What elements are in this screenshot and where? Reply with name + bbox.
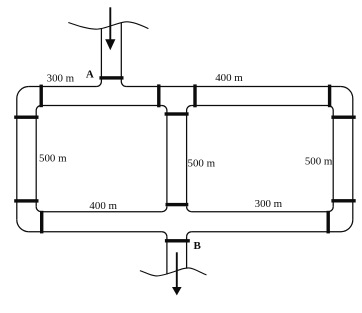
svg-text:400 m: 400 m bbox=[89, 200, 117, 212]
middle-top tee flange bar bbox=[165, 112, 189, 115]
middle pipe left wall bbox=[166, 111, 168, 207]
middle-top tee left fillet bbox=[162, 106, 167, 111]
outer top-right elbow bbox=[341, 87, 353, 99]
flange bar, bottom pipe near right elbow bbox=[327, 211, 330, 234]
svg-text:300 m: 300 m bbox=[47, 73, 75, 85]
left pipe inner wall bbox=[35, 111, 37, 207]
inflow arrow (top) bbox=[105, 7, 115, 50]
inner bottom-right elbow bbox=[328, 207, 333, 212]
left pipe outer wall bbox=[16, 99, 18, 220]
inner top-left elbow bbox=[36, 106, 41, 111]
node B flange bar bbox=[165, 239, 190, 242]
flange bar, top pipe near left elbow bbox=[40, 85, 43, 108]
inlet pipe right wall bbox=[121, 23, 126, 87]
svg-text:400 m: 400 m bbox=[215, 72, 243, 84]
flange bar, top pipe left of middle tee bbox=[157, 84, 160, 107]
right pipe lower flange bar bbox=[331, 199, 355, 202]
outlet tee right fillet bbox=[187, 232, 192, 237]
bottom pipe top line (right segment) bbox=[192, 211, 329, 213]
right pipe inner wall bbox=[332, 111, 334, 207]
flange bar, bottom pipe near left elbow bbox=[40, 211, 43, 234]
outer bottom-left elbow bbox=[17, 220, 29, 232]
outer top-left elbow bbox=[17, 87, 29, 99]
outlet tee left fillet bbox=[162, 232, 167, 237]
top break wavy line bbox=[68, 22, 148, 29]
svg-text:500 m: 500 m bbox=[39, 152, 67, 164]
middle-bottom tee left fillet bbox=[162, 207, 167, 212]
left pipe lower flange bar bbox=[14, 199, 38, 202]
svg-text:B: B bbox=[194, 240, 202, 252]
bottom pipe top line (left segment) bbox=[41, 211, 162, 213]
middle pipe right wall bbox=[186, 111, 188, 207]
top pipe top line (right segment) bbox=[126, 86, 340, 88]
svg-text:A: A bbox=[86, 69, 94, 81]
flange bar, top pipe right of middle tee bbox=[193, 84, 196, 107]
right pipe outer wall bbox=[352, 99, 354, 220]
svg-text:300 m: 300 m bbox=[255, 198, 283, 210]
svg-text:500 m: 500 m bbox=[305, 155, 333, 167]
node A flange bar bbox=[99, 76, 123, 79]
inlet pipe left wall bbox=[96, 28, 101, 87]
left pipe upper flange bar bbox=[14, 116, 38, 119]
outlet pipe right wall bbox=[186, 237, 188, 269]
outflow arrow (bottom) bbox=[172, 252, 182, 295]
flange bar, top pipe near right elbow bbox=[328, 85, 331, 108]
top pipe top line (left segment) bbox=[29, 86, 97, 88]
inner bottom-left elbow bbox=[36, 207, 41, 212]
bottom pipe bottom line (left segment) bbox=[29, 231, 162, 233]
outlet pipe left wall bbox=[166, 237, 168, 275]
bottom pipe bottom line (right segment) bbox=[192, 231, 341, 233]
bottom break wavy line bbox=[140, 268, 207, 276]
top pipe bottom line (right segment) bbox=[192, 105, 329, 107]
inner top-right elbow bbox=[328, 106, 333, 111]
svg-text:500 m: 500 m bbox=[188, 157, 216, 169]
top pipe bottom line (left segment) bbox=[41, 105, 162, 107]
middle-top tee right fillet bbox=[187, 106, 192, 111]
middle-bottom tee flange bar bbox=[166, 203, 189, 206]
right pipe upper flange bar bbox=[331, 116, 355, 119]
middle-bottom tee right fillet bbox=[187, 207, 192, 212]
outer bottom-right elbow bbox=[341, 220, 353, 232]
